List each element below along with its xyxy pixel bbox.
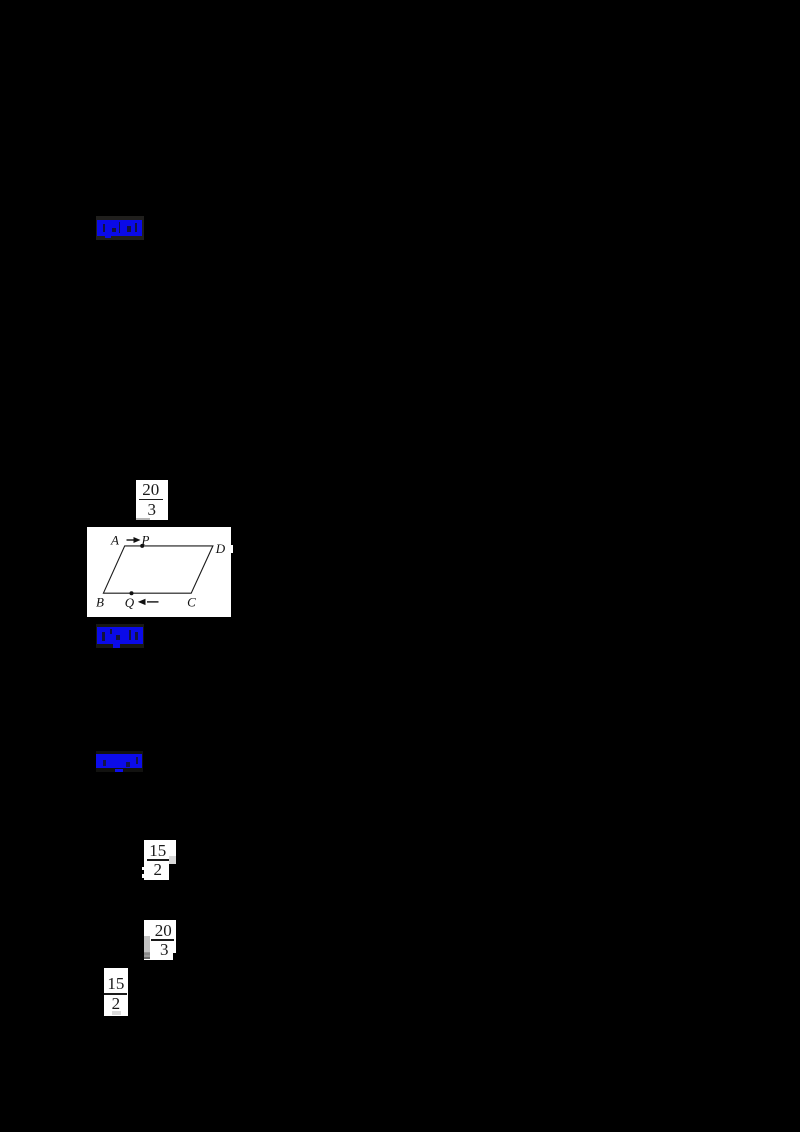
white notch right of D — [230, 545, 233, 553]
section label [answer] dark box — [96, 216, 144, 240]
svg-text:C: C — [187, 595, 196, 610]
formula image: fraction 20/3 (second) — [144, 920, 177, 961]
svg-text:Q: Q — [125, 595, 135, 610]
formula image: fraction 15/2 (second) — [104, 968, 128, 1016]
formula image: fraction 20/3 — [136, 480, 168, 521]
geometry figure: parallelogram ABCD with points P and Q — [87, 527, 231, 617]
blue bold label text blob — [97, 220, 142, 237]
section label [analysis] dark box — [96, 624, 144, 648]
formula image: fraction 15/2 — [144, 840, 177, 881]
arrow pointing left toward Q — [147, 601, 159, 603]
point P dot on edge AD — [140, 544, 144, 548]
black cut bottom-right — [169, 864, 176, 881]
blue bold label text blob — [97, 627, 143, 644]
gray patch right of bar — [169, 856, 177, 864]
svg-text:B: B — [96, 595, 104, 610]
equals mark remnant — [144, 953, 150, 955]
gray patch left — [144, 936, 151, 952]
svg-text:P: P — [141, 533, 150, 548]
gray patch bottom — [112, 1011, 121, 1015]
svg-text:A: A — [110, 533, 119, 548]
black cut bottom-right — [173, 953, 176, 961]
parallelogram ABCD outline — [103, 546, 212, 593]
section label [detail] blue blob — [96, 751, 144, 772]
svg-text:D: D — [215, 541, 226, 556]
arrow from A toward P — [127, 539, 136, 541]
point Q dot on edge BC — [130, 591, 134, 595]
equals sign remnant nubs on left — [142, 867, 144, 871]
